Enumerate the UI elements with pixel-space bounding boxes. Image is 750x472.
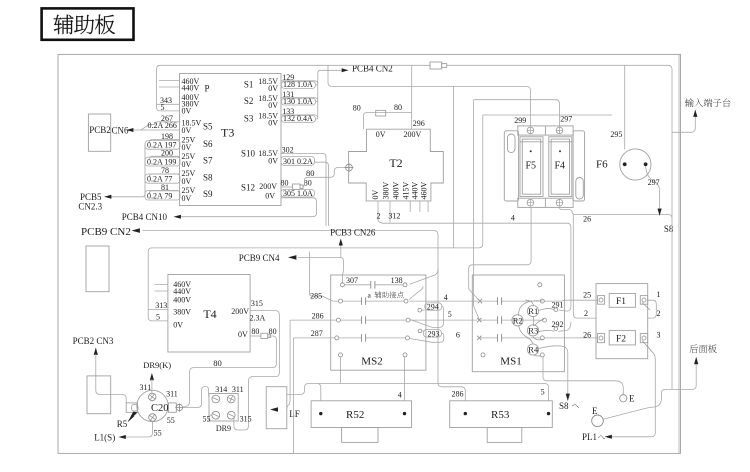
- junction node on wire to T2: [345, 163, 354, 172]
- wire LF bus up: [287, 320, 294, 453]
- svg-text:26: 26: [583, 331, 591, 340]
- wire 2 and 312 from T2 to coil supply: [377, 212, 571, 228]
- svg-text:PL1: PL1: [582, 432, 597, 442]
- svg-text:5: 5: [448, 310, 452, 319]
- wire branch to MS2 aux 138: [410, 269, 438, 284]
- label PCB2 CN3 with arrow: [73, 336, 127, 403]
- svg-text:4: 4: [398, 391, 402, 400]
- wire 80 down to C20 junction: [183, 358, 277, 407]
- bus from S6-S9 fused wires to PCB5: [112, 145, 146, 197]
- arrow to input terminal 输入端子台: [685, 98, 730, 117]
- MS1 coil top terminal: [538, 283, 542, 287]
- svg-text:S1: S1: [244, 79, 254, 89]
- svg-text:55: 55: [167, 416, 175, 425]
- svg-text:MS1: MS1: [500, 356, 521, 368]
- svg-text:4: 4: [511, 213, 515, 222]
- label PCB5 CN2.3: [78, 192, 102, 211]
- svg-text:5: 5: [156, 312, 160, 321]
- svg-text:80: 80: [306, 168, 315, 178]
- svg-text:R1: R1: [528, 306, 538, 316]
- svg-text:6: 6: [456, 331, 460, 340]
- MS1 contact row 1: [478, 297, 545, 305]
- svg-text:S8: S8: [664, 224, 674, 234]
- wire bottom rail: [287, 384, 549, 401]
- wire 78 and fused wire 0.2A 77 (T3 S8): [145, 166, 180, 183]
- svg-text:132 0.4A: 132 0.4A: [283, 114, 313, 123]
- arrow to PCB4 CN10: [122, 212, 181, 222]
- svg-text:PCB3 CN26: PCB3 CN26: [330, 228, 376, 238]
- svg-text:0V: 0V: [182, 194, 192, 203]
- svg-text:311: 311: [232, 385, 244, 394]
- resistor R52: [311, 401, 412, 443]
- svg-text:0V: 0V: [182, 143, 192, 152]
- svg-text:S3: S3: [244, 114, 254, 124]
- connector PCB2 CN6: [88, 114, 129, 151]
- wire 266 0.2A from T3 S5 0V to PCB2 CN6: [134, 121, 180, 130]
- capacitor C20 label: [151, 403, 169, 414]
- svg-text:PCB2 CN3: PCB2 CN3: [73, 336, 114, 346]
- svg-text:295: 295: [610, 130, 622, 139]
- svg-text:R5: R5: [117, 419, 128, 429]
- svg-text:460V: 460V: [420, 182, 429, 200]
- svg-text:S8: S8: [559, 401, 569, 411]
- wire 315 from T4 200V: [234, 299, 280, 430]
- svg-text:2: 2: [657, 309, 661, 318]
- svg-text:299: 299: [514, 116, 526, 125]
- T3 secondary labels left column: [182, 118, 214, 203]
- svg-text:314: 314: [215, 385, 227, 394]
- MS2 coil terminals: [339, 353, 408, 357]
- wire 133 and fused wire 132 0.4A (T3 S3): [281, 107, 318, 123]
- svg-text:315: 315: [251, 299, 263, 308]
- wire F2 output to PL1: [611, 331, 661, 437]
- svg-text:198: 198: [161, 132, 173, 141]
- svg-text:T2: T2: [389, 156, 402, 170]
- wire PCB9 CN4 to MS2 aux 307: [298, 257, 344, 284]
- wire drop to mid rail right end: [479, 115, 483, 248]
- contactor MS2 body: [331, 275, 426, 370]
- svg-text:0V: 0V: [265, 192, 275, 201]
- wire row2 to MS1: [410, 319, 477, 321]
- svg-text:305 1.0A: 305 1.0A: [283, 189, 313, 198]
- svg-text:440V: 440V: [182, 84, 200, 93]
- wire rail third: [483, 114, 612, 116]
- svg-text:285: 285: [310, 291, 322, 300]
- svg-text:80: 80: [281, 179, 289, 188]
- svg-text:200: 200: [161, 149, 173, 158]
- label 297 at F4: [560, 114, 572, 123]
- svg-text:292: 292: [552, 320, 564, 329]
- svg-text:80: 80: [269, 327, 277, 336]
- wire 5 to T4 0V: [148, 309, 168, 321]
- connector box bottom left: [87, 376, 111, 414]
- wire 80 jumper at T2 with connector: [353, 103, 412, 129]
- svg-text:286: 286: [452, 389, 464, 398]
- wire coil supply to R coils: [559, 227, 571, 331]
- wire 80 from T3 S12 200V with connector: [281, 168, 351, 190]
- MS1 contact row 3: [477, 334, 544, 342]
- svg-text:0V: 0V: [268, 118, 278, 127]
- contactor MS1 label: [500, 356, 521, 368]
- T4 stubs: [155, 285, 168, 292]
- T2 top pin labels: [376, 130, 422, 139]
- svg-text:0V: 0V: [182, 160, 192, 169]
- svg-text:PCB4 CN10: PCB4 CN10: [122, 212, 168, 222]
- wire 26 from F4 bottom: [560, 207, 673, 223]
- relay R2: [512, 315, 523, 326]
- label R5 with arrow: [117, 412, 138, 429]
- earth terminal small E: [620, 394, 635, 404]
- svg-text:301 0.2A: 301 0.2A: [283, 157, 313, 166]
- svg-text:294: 294: [427, 302, 439, 311]
- wire F1 output loop: [648, 290, 661, 318]
- wire 198 and fused wire 0.2A 197 (T3 S6): [145, 132, 180, 150]
- wire rail to F5: [328, 65, 530, 126]
- svg-text:128 1.0A: 128 1.0A: [283, 80, 313, 89]
- fuse F6 label: [596, 159, 608, 171]
- svg-text:5: 5: [161, 103, 165, 112]
- svg-text:380V: 380V: [382, 182, 391, 200]
- arrow to PCB9 CN2: [81, 226, 140, 238]
- MS2 contact row 2: [336, 316, 410, 324]
- svg-text:S7: S7: [203, 156, 213, 166]
- rectifier DR9 body: [209, 394, 238, 422]
- wire top rail from T3 to right side with inline connector: [160, 65, 672, 100]
- label aux contact a辅助接点: [368, 291, 404, 300]
- fuse F2: [598, 330, 652, 351]
- wire 313 to T4 380V: [148, 301, 168, 310]
- svg-text:PCB2: PCB2: [89, 125, 111, 135]
- wire MS2 row1 diagonal up: [409, 287, 423, 300]
- svg-text:55: 55: [203, 414, 211, 423]
- label PCB3 CN26 with arrow: [330, 228, 376, 258]
- svg-text:80: 80: [251, 327, 259, 336]
- svg-text:311: 311: [140, 383, 152, 392]
- connector on top rail: [430, 62, 447, 69]
- svg-text:T3: T3: [221, 126, 234, 140]
- svg-text:400V: 400V: [392, 182, 401, 200]
- svg-text:293: 293: [428, 330, 440, 339]
- MS1 coil bottom terminals: [481, 353, 544, 357]
- svg-text:296: 296: [413, 119, 425, 128]
- svg-text:4: 4: [444, 293, 448, 302]
- MS2 contact row 1: [339, 297, 409, 305]
- svg-text:F4: F4: [555, 160, 566, 171]
- wire 200 and fused wire 0.2A 199 (T3 S7): [145, 149, 180, 167]
- wire C20 right to junction: [166, 390, 178, 399]
- fuse F4: [549, 127, 572, 206]
- wire MS1 coil right down: [541, 357, 547, 397]
- junction node right of C20: [175, 403, 183, 411]
- wire 295 to fuse F6: [610, 65, 624, 149]
- svg-text:T4: T4: [203, 307, 216, 321]
- svg-text:R4: R4: [528, 345, 539, 355]
- wire mid rail: [148, 248, 479, 252]
- wire big E to rear panel: [603, 365, 696, 420]
- svg-text:315: 315: [240, 414, 252, 423]
- wire 297 from F6 to S8: [646, 166, 660, 208]
- C20 terminal bottom: [148, 413, 158, 423]
- arrow to PCB9 CN4: [239, 253, 297, 263]
- board outline frame: [58, 54, 681, 453]
- wire T3 460V stub: [159, 80, 180, 82]
- wire 285 into MS2: [309, 252, 338, 302]
- relay R3: [527, 325, 538, 336]
- svg-text:291: 291: [552, 300, 564, 309]
- bus S1-S3 to PCB4 CN2: [318, 70, 341, 119]
- resistor R53: [450, 401, 553, 443]
- wire 129 and fused wire 128 1.0A (T3 S1): [281, 73, 318, 89]
- earth terminal big E: [592, 406, 604, 427]
- wire drop to MS1 row2: [474, 100, 480, 320]
- svg-text:0V: 0V: [182, 126, 192, 135]
- wire 287 into MS2: [293, 329, 334, 338]
- svg-text:5: 5: [541, 388, 545, 397]
- arrow LF: [270, 407, 300, 419]
- svg-text:S8: S8: [203, 173, 213, 183]
- svg-text:307: 307: [346, 276, 358, 285]
- svg-text:380V: 380V: [173, 307, 191, 316]
- relay R1: [527, 305, 538, 316]
- svg-text:286: 286: [312, 311, 324, 320]
- transformer T3 body: [180, 74, 282, 206]
- svg-text:2: 2: [584, 309, 588, 318]
- wire 343 to T3 380V: [157, 65, 180, 105]
- wire T3 440V stub: [159, 86, 180, 88]
- wire 296 to T2 200V: [412, 65, 425, 129]
- svg-text:138: 138: [391, 276, 403, 285]
- wire 302 from T3 S10: [281, 145, 326, 226]
- MS2 contact row 3: [335, 334, 410, 342]
- svg-text:C20: C20: [151, 403, 169, 414]
- wire branch to input terminal block: [672, 117, 695, 132]
- svg-text:0V: 0V: [268, 84, 278, 93]
- arrow to PCB5 CN2.3: [104, 195, 111, 199]
- svg-text:0.2A 79: 0.2A 79: [147, 191, 172, 200]
- aux terminal and fused label 294: [411, 302, 444, 327]
- svg-text:R2: R2: [513, 315, 523, 325]
- wire 81 and fused wire 0.2A 79 (T3 S9): [145, 183, 180, 200]
- label 5 row: [448, 310, 452, 319]
- svg-text:200V: 200V: [231, 307, 249, 316]
- svg-text:80: 80: [394, 103, 402, 112]
- fuse F5: [518, 126, 573, 207]
- svg-text:R3: R3: [528, 325, 538, 335]
- T3 primary pin labels: [182, 77, 210, 115]
- svg-text:0V: 0V: [173, 321, 183, 330]
- svg-text:2.3A: 2.3A: [250, 314, 266, 323]
- svg-text:MS2: MS2: [361, 356, 382, 368]
- transformer T4 label: [203, 307, 216, 321]
- label DR9(K) with arrow: [143, 360, 171, 395]
- fuse block mounting plate left: [504, 131, 518, 201]
- wire MS2 coil right to R52: [398, 357, 405, 401]
- svg-text:130 1.0A: 130 1.0A: [283, 97, 313, 106]
- svg-text:440V: 440V: [411, 182, 420, 200]
- filter LF box: [266, 387, 287, 429]
- wire power drop to mid rail: [452, 86, 454, 248]
- wire MS2 coil left down: [340, 357, 342, 384]
- svg-text:55: 55: [154, 429, 162, 438]
- contactor MS2 label: [361, 356, 382, 368]
- fuse F6 body: [620, 149, 651, 180]
- svg-text:0V: 0V: [268, 157, 278, 166]
- arrow down to S8 lower: [559, 394, 579, 411]
- wire rail to F4: [474, 100, 560, 126]
- svg-text:0V: 0V: [238, 330, 248, 339]
- wire 5 to T3 0V: [157, 103, 180, 112]
- svg-text:2: 2: [377, 212, 381, 221]
- svg-text:DR9: DR9: [216, 424, 231, 433]
- svg-text:415V: 415V: [402, 182, 411, 200]
- wire 267 from T3 S5 18.5V: [149, 114, 180, 124]
- fused wire 301 0.2A from T3 S10: [281, 157, 329, 227]
- wire input terminal vertical: [671, 100, 673, 389]
- svg-text:R53: R53: [491, 409, 510, 421]
- svg-text:E: E: [592, 406, 598, 416]
- connector box left mid: [86, 246, 109, 292]
- transformer T2 body: [349, 129, 444, 201]
- svg-text:313: 313: [155, 301, 167, 310]
- svg-text:DR9(K): DR9(K): [143, 360, 171, 370]
- wire L1(S) to C20 bottom: [94, 421, 161, 442]
- svg-text:S9: S9: [203, 189, 213, 199]
- svg-text:F6: F6: [596, 159, 608, 171]
- wire earth rail: [547, 381, 623, 395]
- svg-text:S12: S12: [241, 183, 255, 193]
- svg-text:3: 3: [657, 331, 661, 340]
- svg-text:0.2A 199: 0.2A 199: [147, 157, 176, 166]
- wire 80 from T4 0V with connector: [250, 327, 277, 364]
- svg-text:0V: 0V: [268, 101, 278, 110]
- wire right vertical rail: [678, 54, 680, 453]
- arrow to PL1: [582, 432, 612, 442]
- svg-text:S5: S5: [203, 122, 213, 132]
- label 299: [514, 116, 526, 125]
- wire MS1 to S8: [539, 346, 568, 395]
- svg-text:297: 297: [560, 114, 572, 123]
- T4 pin labels: [173, 280, 249, 339]
- svg-text:S10: S10: [241, 149, 256, 159]
- aux terminal and fused label 293: [410, 329, 444, 342]
- svg-text:PCB9 CN2: PCB9 CN2: [81, 226, 131, 238]
- svg-text:0V: 0V: [182, 177, 192, 186]
- svg-text:312: 312: [388, 212, 400, 221]
- svg-text:1: 1: [657, 290, 661, 299]
- svg-text:CN2.3: CN2.3: [78, 202, 102, 212]
- svg-text:25: 25: [583, 291, 591, 300]
- contactor MS1 body: [472, 275, 564, 372]
- label 311 left: [140, 383, 152, 392]
- svg-text:LF: LF: [289, 409, 300, 419]
- relay coil wires: [519, 300, 555, 356]
- svg-text:0V: 0V: [371, 190, 380, 200]
- arrow to rear panel 后面板: [690, 344, 717, 364]
- capacitor C20 body: [126, 390, 176, 421]
- wire junction to DR9: [183, 387, 212, 416]
- arrow to PCB4 CN2: [342, 64, 393, 74]
- svg-text:F2: F2: [616, 335, 626, 345]
- T2 bottom pins: [378, 201, 428, 223]
- relay R4: [527, 344, 539, 355]
- transformer T3 label: [221, 126, 234, 140]
- svg-text:200V: 200V: [259, 182, 277, 191]
- svg-text:0V: 0V: [376, 130, 386, 139]
- fuse F1: [598, 294, 651, 311]
- svg-text:297: 297: [648, 178, 660, 187]
- arrow to PCB2 CN6: [126, 128, 133, 132]
- T3 secondary labels right column: [241, 77, 278, 200]
- svg-text:E: E: [629, 394, 635, 404]
- wire 25 to F1: [544, 291, 597, 301]
- MS1 contact row 2: [477, 316, 546, 324]
- wire 131 and fused wire 130 1.0A (T3 S2): [281, 90, 318, 106]
- wire left bus to T4: [147, 252, 149, 310]
- svg-text:R52: R52: [346, 409, 364, 421]
- svg-text:400V: 400V: [173, 295, 191, 304]
- svg-text:S2: S2: [244, 96, 254, 106]
- label 55 right of C20: [167, 416, 175, 425]
- fuse block mounting plate right: [573, 131, 585, 201]
- svg-text:80: 80: [353, 104, 361, 113]
- title box 辅助板 (auxiliary board): [42, 8, 134, 39]
- wire PCB9 CN2 net 286: [142, 231, 465, 401]
- transformer T2 label: [389, 156, 402, 170]
- svg-text:PCB9 CN4: PCB9 CN4: [239, 253, 280, 263]
- svg-text:0.2A 266: 0.2A 266: [148, 121, 177, 130]
- svg-text:200V: 200V: [404, 130, 422, 139]
- svg-text:26: 26: [583, 214, 591, 223]
- svg-text:P: P: [205, 83, 210, 93]
- label 6 row: [456, 331, 460, 340]
- C20 terminal top: [147, 392, 157, 402]
- MS2 aux contact row: [340, 276, 407, 289]
- coil terminal 292: [552, 320, 564, 330]
- coil terminal 291: [552, 300, 564, 311]
- svg-text:S6: S6: [203, 139, 213, 149]
- svg-text:F5: F5: [526, 160, 537, 171]
- label 286 at R53: [452, 389, 464, 398]
- T2 bottom pin labels rotated: [371, 182, 429, 200]
- DR9 labels: [203, 385, 252, 433]
- svg-text:0V: 0V: [182, 106, 192, 115]
- wire 4 from F5 bottom to MS1 row1: [469, 207, 531, 301]
- DR9 terminals: [212, 395, 236, 419]
- wire 286 into MS2: [290, 311, 336, 320]
- transformer T4 body: [168, 275, 250, 353]
- fuse block F1 F2 outline: [596, 284, 648, 359]
- fused wire 305 1.0A from T3 S12 0V to PCB4 CN10: [181, 189, 317, 217]
- svg-text:311: 311: [166, 390, 178, 399]
- F6 terminals: [623, 162, 648, 166]
- svg-text:CN6: CN6: [112, 125, 130, 135]
- wire net 2 vertical: [573, 215, 596, 319]
- svg-text:80: 80: [213, 358, 222, 368]
- wire 4 row: [410, 293, 479, 302]
- svg-text:L1(S): L1(S): [94, 432, 115, 442]
- svg-text:287: 287: [311, 329, 323, 338]
- wire 26 to F2: [544, 331, 597, 340]
- arrow down to S8: [658, 209, 674, 235]
- svg-text:302: 302: [282, 145, 294, 154]
- svg-text:F1: F1: [616, 297, 626, 307]
